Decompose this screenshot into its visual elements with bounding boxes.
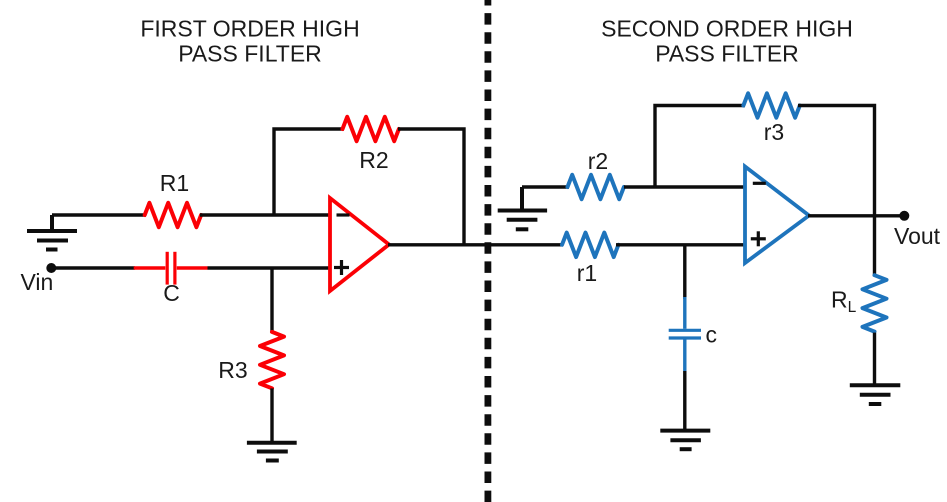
wire: Vin to capacitor C (51, 266, 135, 269)
svg-text:r1: r1 (577, 260, 597, 286)
wire: R3 branch from plus wire (270, 268, 273, 333)
op-amp U2 (blue) (745, 167, 809, 264)
resistor R1 (145, 203, 201, 227)
wire: ground G2 to r2 (522, 185, 569, 188)
svg-text:c: c (706, 322, 718, 348)
wire: RL to ground G5 (873, 333, 876, 386)
title: FIRST ORDER HIGH PASS FILTER (140, 16, 359, 67)
resistor r1 (blue) (562, 233, 618, 257)
wire: capacitor C to op-amp U1 plus input (208, 266, 332, 269)
svg-text:Vin: Vin (21, 269, 54, 295)
ground G5 (below RL) (850, 385, 901, 404)
svg-text:r3: r3 (764, 119, 784, 145)
ground G4 (below c) (660, 431, 710, 450)
divider dashed line (484, 0, 491, 502)
svg-text:r2: r2 (588, 148, 608, 174)
wire: ground G1 to R1 (52, 213, 146, 216)
U2 minus input label (753, 182, 766, 185)
capacitor c (blue, with blue lead segments) (669, 297, 701, 371)
svg-text:C: C (163, 280, 180, 306)
U1 plus input label (334, 260, 349, 275)
wire: R1 to op-amp U1 minus input (200, 213, 331, 216)
wire: R3 to ground G3 (270, 388, 273, 442)
wire: feedback left vertical + top segment to R2 (274, 129, 344, 216)
svg-text:Vout: Vout (894, 223, 941, 249)
resistor r2 (blue) (568, 175, 624, 199)
ground G2 (left of r2) (498, 187, 547, 229)
resistor R2 (343, 117, 399, 141)
wire: c branch from plus wire (683, 245, 686, 299)
ground G1 (left of R1) (27, 215, 77, 250)
resistor r3 (blue) (743, 93, 799, 117)
wire: U2 output to Vout (808, 214, 904, 217)
svg-text:R3: R3 (218, 357, 247, 383)
wire: r3 right segment and vertical down to RL (798, 106, 875, 277)
capacitor C (red, with red lead segments) (134, 252, 208, 285)
resistor RL (blue) (863, 275, 887, 331)
wire: capacitor c to ground G4 (683, 371, 686, 431)
title: SECOND ORDER HIGH PASS FILTER (601, 16, 853, 67)
node Vin (input dot) (46, 263, 56, 273)
wire: R2 to feedback right vertical down to output (398, 129, 464, 245)
svg-text:FIRST ORDER HIGH: FIRST ORDER HIGH (140, 16, 359, 42)
svg-text:PASS FILTER: PASS FILTER (655, 41, 799, 67)
resistor R3 (260, 332, 284, 388)
ground G3 (below R3) (247, 443, 297, 461)
op-amp U1 (red) (330, 198, 389, 291)
node Vout (output dot) (899, 211, 909, 221)
svg-text:PASS FILTER: PASS FILTER (178, 41, 322, 67)
svg-text:R2: R2 (359, 147, 388, 173)
svg-text:SECOND ORDER HIGH: SECOND ORDER HIGH (601, 16, 853, 42)
wire: feedback tap up and top segment to r3 (655, 106, 745, 189)
U2 plus input label (751, 231, 766, 246)
wire: U1 output across divider to r1 (388, 243, 561, 246)
wire: r1 to op-amp U2 plus input (616, 243, 746, 246)
U1 minus input label (337, 213, 350, 216)
svg-text:R1: R1 (160, 170, 189, 196)
wire: r2 to op-amp U2 minus input (624, 185, 746, 188)
